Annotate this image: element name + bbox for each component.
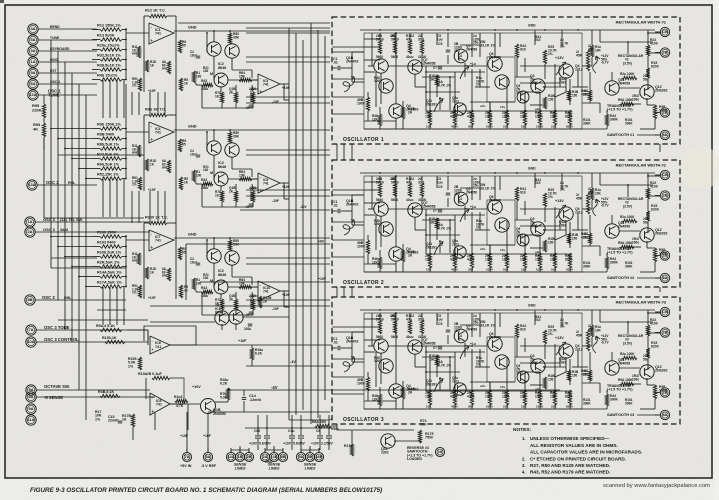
svg-text:(+1.5 TO +1.7V): (+1.5 TO +1.7V) bbox=[607, 251, 633, 255]
svg-text:5600: 5600 bbox=[391, 198, 398, 202]
svg-text:1000: 1000 bbox=[485, 395, 493, 399]
svg-text:43u: 43u bbox=[406, 38, 412, 42]
svg-text:R4b 15u1%: R4b 15u1% bbox=[97, 73, 118, 77]
svg-text:R14A,5uK 1%: R14A,5uK 1% bbox=[97, 270, 122, 274]
svg-text:M: M bbox=[210, 171, 213, 175]
svg-text:+10V: +10V bbox=[311, 442, 320, 446]
svg-text:+10V: +10V bbox=[249, 442, 258, 446]
svg-text:OSC 3: OSC 3 bbox=[43, 227, 56, 232]
svg-text:5600: 5600 bbox=[376, 55, 383, 59]
svg-text:12K: 12K bbox=[372, 260, 379, 264]
svg-text:31.1K: 31.1K bbox=[418, 198, 427, 202]
svg-text:6.2K: 6.2K bbox=[255, 352, 263, 356]
svg-text:1%: 1% bbox=[548, 332, 553, 336]
svg-text:KEYBOARD: KEYBOARD bbox=[50, 47, 70, 51]
svg-text:390K: 390K bbox=[583, 121, 591, 125]
svg-text:1900: 1900 bbox=[357, 382, 365, 386]
svg-text:R12 1K T.C.: R12 1K T.C. bbox=[145, 9, 166, 13]
svg-text:2N1391: 2N1391 bbox=[426, 245, 437, 249]
svg-text:741: 741 bbox=[155, 345, 161, 349]
svg-text:R2u 100K: R2u 100K bbox=[620, 72, 635, 76]
svg-text:1000: 1000 bbox=[486, 125, 493, 129]
svg-text:R8A 150: R8A 150 bbox=[312, 420, 326, 424]
svg-text:OSCILLATOR 2: OSCILLATOR 2 bbox=[343, 280, 384, 286]
svg-text:1K: 1K bbox=[184, 81, 189, 85]
svg-text:390K: 390K bbox=[610, 118, 619, 122]
svg-text:u7u: u7u bbox=[480, 247, 486, 251]
svg-text:13A: 13A bbox=[28, 182, 35, 187]
svg-text:1000: 1000 bbox=[374, 222, 381, 226]
svg-text:1000: 1000 bbox=[374, 359, 381, 363]
svg-text:-4V: -4V bbox=[290, 360, 296, 364]
svg-text:BEND: BEND bbox=[50, 25, 60, 29]
svg-text:390K: 390K bbox=[625, 121, 633, 125]
svg-text:300: 300 bbox=[468, 405, 473, 409]
svg-text:1900: 1900 bbox=[357, 102, 365, 106]
svg-text:8B: 8B bbox=[27, 297, 32, 302]
svg-text:1K: 1K bbox=[184, 180, 189, 184]
svg-text:-5 V REF: -5 V REF bbox=[201, 464, 217, 468]
svg-text:2B: 2B bbox=[662, 110, 667, 115]
svg-text:43K: 43K bbox=[581, 372, 588, 376]
svg-text:8100: 8100 bbox=[565, 115, 573, 119]
svg-text:15K: 15K bbox=[426, 125, 432, 129]
svg-text:1000: 1000 bbox=[502, 115, 510, 119]
svg-text:R2u 100K: R2u 100K bbox=[620, 352, 635, 356]
svg-text:OSCILLATOR 1: OSCILLATOR 1 bbox=[343, 137, 384, 143]
svg-text:1000: 1000 bbox=[502, 395, 510, 399]
svg-text:C*: C* bbox=[433, 209, 437, 213]
svg-text:50u: 50u bbox=[643, 357, 649, 361]
svg-text:R27, R50 AND R129 ARE MATCHED.: R27, R50 AND R129 ARE MATCHED. bbox=[530, 463, 610, 468]
svg-text:+10F: +10F bbox=[180, 434, 188, 438]
svg-text:5A: 5A bbox=[205, 454, 210, 459]
svg-text:ww: ww bbox=[131, 259, 137, 263]
svg-text:2A: 2A bbox=[27, 229, 32, 234]
svg-text:GND: GND bbox=[528, 304, 536, 308]
svg-text:1000: 1000 bbox=[374, 79, 381, 83]
svg-text:5600: 5600 bbox=[391, 55, 398, 59]
svg-text:910: 910 bbox=[520, 48, 526, 52]
svg-text:+10F: +10F bbox=[148, 89, 156, 93]
svg-text:C4u: C4u bbox=[288, 429, 294, 433]
svg-text:1%: 1% bbox=[560, 188, 565, 192]
svg-text:2N1391: 2N1391 bbox=[426, 102, 437, 106]
svg-text:4300: 4300 bbox=[451, 405, 458, 409]
svg-text:10K: 10K bbox=[595, 328, 602, 332]
svg-text:2N4058: 2N4058 bbox=[618, 362, 630, 366]
svg-text:R43: R43 bbox=[201, 286, 207, 290]
svg-text:2K: 2K bbox=[408, 391, 413, 395]
svg-text:6200: 6200 bbox=[651, 65, 659, 69]
svg-text:5600: 5600 bbox=[376, 198, 383, 202]
svg-text:C5: C5 bbox=[438, 322, 442, 326]
svg-text:31.1: 31.1 bbox=[418, 181, 425, 185]
svg-text:OSC 3: OSC 3 bbox=[42, 295, 55, 300]
svg-text:1%: 1% bbox=[128, 364, 134, 368]
svg-text:11A: 11A bbox=[27, 417, 34, 422]
svg-text:1000: 1000 bbox=[486, 405, 493, 409]
svg-text:150K: 150K bbox=[535, 258, 544, 262]
svg-text:1%: 1% bbox=[548, 52, 553, 56]
svg-text:-0.7V: -0.7V bbox=[601, 204, 609, 208]
svg-text:RECTANGULAR WIDTH #3: RECTANGULAR WIDTH #3 bbox=[616, 299, 667, 304]
svg-text:8100: 8100 bbox=[565, 258, 573, 262]
svg-text:+1u: +1u bbox=[470, 342, 476, 346]
svg-text:43uu: 43uu bbox=[406, 55, 413, 59]
svg-text:33.1K 1%: 33.1K 1% bbox=[480, 187, 496, 191]
svg-text:SAWTOOTH #1: SAWTOOTH #1 bbox=[607, 133, 635, 137]
svg-text:1000: 1000 bbox=[485, 115, 493, 119]
svg-text:+13V: +13V bbox=[555, 336, 564, 340]
svg-text:10K: 10K bbox=[595, 191, 602, 195]
svg-text:10uf: 10uf bbox=[190, 152, 197, 156]
svg-text:1000: 1000 bbox=[485, 258, 493, 262]
svg-text:6200: 6200 bbox=[651, 345, 659, 349]
svg-text:LINES: LINES bbox=[235, 467, 246, 471]
svg-text:R9b 1K T.C.: R9b 1K T.C. bbox=[145, 108, 166, 112]
svg-text:10A: 10A bbox=[27, 339, 34, 344]
svg-text:RECTANGULAR: RECTANGULAR bbox=[618, 54, 644, 58]
svg-text:1%: 1% bbox=[560, 325, 565, 329]
svg-text:FIGURE 9-3 OSCILLATOR PRINTED: FIGURE 9-3 OSCILLATOR PRINTED CIRCUIT BO… bbox=[30, 487, 382, 494]
svg-text:ww: ww bbox=[161, 67, 167, 71]
svg-text:1A: 1A bbox=[30, 59, 35, 64]
svg-text:2.2/50V: 2.2/50V bbox=[321, 442, 334, 446]
svg-text:OSCILLATOR 3: OSCILLATOR 3 bbox=[343, 417, 384, 423]
svg-text:15K: 15K bbox=[426, 268, 432, 272]
svg-text:M: M bbox=[210, 72, 213, 76]
svg-text:OSC 3 TONE: OSC 3 TONE bbox=[44, 325, 70, 330]
svg-text:+10V: +10V bbox=[192, 385, 201, 389]
svg-text:1312: 1312 bbox=[575, 348, 583, 352]
svg-text:GND: GND bbox=[188, 26, 197, 30]
svg-text:45K: 45K bbox=[576, 54, 583, 58]
svg-text:R32,5u1K 1%: R32,5u1K 1% bbox=[97, 53, 122, 57]
svg-text:1%: 1% bbox=[132, 291, 137, 295]
svg-text:741: 741 bbox=[155, 239, 161, 243]
svg-text:17u: 17u bbox=[500, 248, 505, 252]
svg-text:22mfd: 22mfd bbox=[108, 419, 118, 423]
svg-text:4300: 4300 bbox=[450, 395, 458, 399]
svg-text:100: 100 bbox=[429, 357, 435, 361]
svg-text:10K: 10K bbox=[550, 258, 557, 262]
svg-text:1.: 1. bbox=[522, 436, 526, 441]
svg-text:2N3392: 2N3392 bbox=[655, 369, 667, 373]
svg-text:2B: 2B bbox=[390, 34, 395, 38]
svg-text:.12mfd: .12mfd bbox=[249, 398, 262, 402]
svg-text:GND: GND bbox=[528, 167, 536, 171]
svg-text:33.1K 1%: 33.1K 1% bbox=[480, 324, 496, 328]
svg-text:1000: 1000 bbox=[502, 258, 510, 262]
svg-text:1912: 1912 bbox=[452, 379, 459, 383]
svg-text:2N3392: 2N3392 bbox=[655, 232, 667, 236]
svg-text:150K: 150K bbox=[536, 405, 544, 409]
svg-text:390K: 390K bbox=[610, 261, 619, 265]
svg-text:C5: C5 bbox=[438, 185, 442, 189]
svg-text:(+1.5 TO +1.7V): (+1.5 TO +1.7V) bbox=[607, 388, 633, 392]
svg-text:6A: 6A bbox=[662, 132, 667, 137]
svg-text:15K: 15K bbox=[425, 258, 432, 262]
svg-text:17u: 17u bbox=[500, 385, 505, 389]
svg-text:9A: 9A bbox=[28, 406, 33, 411]
svg-text:2B: 2B bbox=[662, 330, 667, 335]
svg-text:31.1K: 31.1K bbox=[418, 335, 427, 339]
svg-text:100: 100 bbox=[203, 276, 209, 280]
svg-text:R6b,5uK 1%: R6b,5uK 1% bbox=[97, 162, 120, 166]
svg-text:1K: 1K bbox=[263, 300, 268, 304]
svg-text:150K: 150K bbox=[535, 395, 544, 399]
svg-text:2N3392: 2N3392 bbox=[655, 89, 667, 93]
svg-text:910: 910 bbox=[535, 38, 541, 42]
svg-text:u2u: u2u bbox=[535, 250, 541, 254]
svg-text:R19A/B 0.1uF: R19A/B 0.1uF bbox=[138, 372, 163, 376]
svg-text:390K: 390K bbox=[625, 401, 633, 405]
svg-text:3AM: 3AM bbox=[60, 228, 68, 232]
svg-text:-0.7V: -0.7V bbox=[601, 341, 609, 345]
svg-text:390K: 390K bbox=[610, 398, 619, 402]
svg-text:1312: 1312 bbox=[575, 68, 583, 72]
svg-text:ww: ww bbox=[131, 151, 137, 155]
svg-text:5600: 5600 bbox=[376, 335, 383, 339]
svg-text:55: 55 bbox=[182, 251, 186, 255]
svg-text:3A: 3A bbox=[30, 48, 35, 53]
svg-text:OCTAVE SW.: OCTAVE SW. bbox=[44, 384, 70, 389]
svg-text:R150,1K: R150,1K bbox=[102, 336, 117, 340]
svg-text:43uu: 43uu bbox=[406, 335, 413, 339]
svg-text:25u: 25u bbox=[473, 184, 479, 188]
svg-text:R10b,5uK 1%: R10b,5uK 1% bbox=[97, 250, 122, 254]
svg-text:43u: 43u bbox=[406, 181, 412, 185]
svg-text:1%: 1% bbox=[476, 226, 481, 230]
svg-text:R2u 100K: R2u 100K bbox=[620, 215, 635, 219]
svg-text:(3.5V): (3.5V) bbox=[623, 205, 632, 209]
svg-text:1K: 1K bbox=[122, 418, 127, 422]
svg-text:4A: 4A bbox=[30, 26, 35, 31]
svg-text:5B: 5B bbox=[307, 454, 312, 459]
svg-text:R52,15K 1%: R52,15K 1% bbox=[97, 172, 119, 176]
svg-text:14A: 14A bbox=[227, 454, 234, 459]
svg-text:R43: R43 bbox=[201, 79, 207, 83]
svg-text:+6V: +6V bbox=[318, 240, 325, 244]
svg-text:6200: 6200 bbox=[566, 268, 573, 272]
svg-text:10K: 10K bbox=[551, 125, 557, 129]
svg-text:2K: 2K bbox=[408, 111, 413, 115]
svg-text:1K: 1K bbox=[215, 94, 220, 98]
svg-text:+5V IN: +5V IN bbox=[180, 464, 192, 468]
svg-text:16B: 16B bbox=[315, 454, 322, 459]
svg-text:6200: 6200 bbox=[651, 208, 659, 212]
svg-text:31.1: 31.1 bbox=[418, 38, 425, 42]
svg-text:2K: 2K bbox=[229, 189, 234, 193]
svg-text:2N4058: 2N4058 bbox=[618, 82, 630, 86]
svg-text:1K: 1K bbox=[150, 270, 155, 274]
svg-text:u2u: u2u bbox=[535, 107, 541, 111]
svg-text:5.6/35V: 5.6/35V bbox=[259, 442, 272, 446]
svg-text:50u: 50u bbox=[643, 220, 649, 224]
svg-text:CB: CB bbox=[662, 309, 668, 314]
svg-text:10uf: 10uf bbox=[190, 53, 197, 57]
svg-text:150: 150 bbox=[572, 236, 578, 240]
svg-text:4300: 4300 bbox=[450, 115, 458, 119]
svg-text:4300: 4300 bbox=[467, 115, 475, 119]
svg-text:R43: R43 bbox=[201, 178, 207, 182]
svg-text:8646: 8646 bbox=[218, 273, 226, 277]
svg-text:7A: 7A bbox=[184, 454, 189, 459]
svg-text:R12 150K,1%: R12 150K,1% bbox=[97, 23, 121, 27]
svg-text:4300: 4300 bbox=[451, 268, 458, 272]
svg-text:TUNE: TUNE bbox=[50, 36, 60, 40]
svg-text:10K: 10K bbox=[521, 405, 527, 409]
svg-text:55: 55 bbox=[182, 44, 186, 48]
svg-text:+10F: +10F bbox=[148, 188, 156, 192]
svg-text:8646: 8646 bbox=[218, 165, 226, 169]
svg-text:5A: 5A bbox=[30, 37, 35, 42]
svg-text:R103 5400: R103 5400 bbox=[97, 240, 116, 244]
svg-text:R9b 150K,1%: R9b 150K,1% bbox=[97, 122, 122, 126]
svg-text:10K: 10K bbox=[503, 405, 509, 409]
svg-text:910: 910 bbox=[520, 328, 526, 332]
svg-text:+10V: +10V bbox=[318, 277, 327, 281]
svg-text:100: 100 bbox=[196, 74, 202, 78]
svg-text:2K: 2K bbox=[229, 90, 234, 94]
svg-text:-0.7V: -0.7V bbox=[601, 61, 609, 65]
svg-text:39K: 39K bbox=[233, 36, 240, 40]
svg-text:43K: 43K bbox=[581, 235, 588, 239]
svg-text:R176: R176 bbox=[344, 444, 352, 448]
svg-text:910: 910 bbox=[535, 181, 541, 185]
svg-text:R38,5u1K 1%: R38,5u1K 1% bbox=[97, 63, 122, 67]
svg-text:+10F: +10F bbox=[282, 86, 290, 90]
svg-text:150: 150 bbox=[548, 378, 554, 382]
svg-text:15K: 15K bbox=[425, 115, 432, 119]
svg-text:R13 5u0K: R13 5u0K bbox=[97, 33, 115, 37]
svg-text:C5: C5 bbox=[438, 42, 442, 46]
svg-text:4300: 4300 bbox=[467, 258, 475, 262]
svg-text:ALL RESISTOR VALUES ARE IN OHM: ALL RESISTOR VALUES ARE IN OHMS. bbox=[530, 443, 618, 448]
svg-text:-10F: -10F bbox=[272, 199, 279, 203]
svg-text:u7u: u7u bbox=[480, 384, 486, 388]
svg-text:ww: ww bbox=[161, 274, 167, 278]
svg-text:150K: 150K bbox=[536, 125, 544, 129]
svg-text:7A: 7A bbox=[28, 327, 33, 332]
svg-text:2B: 2B bbox=[662, 253, 667, 258]
svg-text:741: 741 bbox=[155, 32, 161, 36]
svg-text:GND: GND bbox=[188, 125, 197, 129]
svg-text:1A: 1A bbox=[27, 219, 32, 224]
svg-text:+10F: +10F bbox=[203, 434, 211, 438]
svg-text:12K: 12K bbox=[372, 117, 379, 121]
svg-text:5A: 5A bbox=[298, 454, 303, 459]
svg-text:4300: 4300 bbox=[450, 258, 458, 262]
svg-text:u7u: u7u bbox=[480, 104, 486, 108]
svg-text:910: 910 bbox=[520, 191, 526, 195]
svg-text:1K: 1K bbox=[215, 193, 220, 197]
svg-text:39K: 39K bbox=[233, 135, 240, 139]
svg-text:8100: 8100 bbox=[565, 395, 573, 399]
svg-text:741: 741 bbox=[263, 83, 269, 87]
svg-text:6B: 6B bbox=[280, 454, 285, 459]
svg-text:15K: 15K bbox=[239, 75, 246, 79]
svg-text:10K: 10K bbox=[521, 125, 527, 129]
svg-text:1%: 1% bbox=[476, 363, 481, 367]
svg-text:RECTANGULAR WIDTH #2: RECTANGULAR WIDTH #2 bbox=[616, 162, 667, 167]
svg-text:-5 SENSE: -5 SENSE bbox=[44, 395, 63, 400]
svg-text:100: 100 bbox=[203, 69, 209, 73]
svg-text:(2A) TEL SW.: (2A) TEL SW. bbox=[60, 218, 83, 222]
svg-text:55: 55 bbox=[182, 143, 186, 147]
svg-text:2B: 2B bbox=[390, 314, 395, 318]
svg-text:50u: 50u bbox=[643, 77, 649, 81]
svg-text:6.2K: 6.2K bbox=[220, 382, 228, 386]
svg-text:1B: 1B bbox=[237, 454, 242, 459]
svg-text:-10F: -10F bbox=[272, 307, 279, 311]
svg-text:C* ETCHED ON PRINTED CIRCUIT B: C* ETCHED ON PRINTED CIRCUIT BOARD. bbox=[530, 457, 626, 462]
svg-text:CB: CB bbox=[662, 29, 668, 34]
svg-text:1912: 1912 bbox=[452, 242, 459, 246]
svg-text:9A: 9A bbox=[30, 70, 35, 75]
svg-text:150: 150 bbox=[548, 241, 554, 245]
svg-text:2N4058: 2N4058 bbox=[466, 327, 477, 331]
svg-text:10K: 10K bbox=[503, 125, 509, 129]
svg-text:+13V: +13V bbox=[555, 199, 564, 203]
svg-text:3.: 3. bbox=[522, 463, 526, 468]
svg-text:100: 100 bbox=[196, 173, 202, 177]
svg-text:1%: 1% bbox=[95, 417, 101, 421]
svg-text:5.9K: 5.9K bbox=[220, 396, 228, 400]
svg-text:R43, R52 AND R179 ARE MATCHED.: R43, R52 AND R179 ARE MATCHED. bbox=[530, 470, 610, 475]
svg-text:ww: ww bbox=[161, 166, 167, 170]
svg-text:150: 150 bbox=[548, 98, 554, 102]
svg-text:R9u,4 5.1K: R9u,4 5.1K bbox=[96, 324, 115, 328]
svg-text:LINES: LINES bbox=[305, 467, 316, 471]
svg-text:R3B,5.1K: R3B,5.1K bbox=[98, 390, 115, 394]
svg-text:R2R,5uK 1%: R2R,5uK 1% bbox=[97, 260, 120, 264]
svg-text:1K: 1K bbox=[150, 162, 155, 166]
svg-text:6A: 6A bbox=[28, 394, 33, 399]
svg-text:10K: 10K bbox=[550, 115, 557, 119]
svg-text:6A: 6A bbox=[662, 275, 667, 280]
svg-text:100: 100 bbox=[429, 77, 435, 81]
svg-text:+1u: +1u bbox=[470, 205, 476, 209]
svg-text:10K: 10K bbox=[551, 268, 557, 272]
svg-text:6200: 6200 bbox=[566, 405, 573, 409]
svg-text:15K: 15K bbox=[426, 405, 432, 409]
svg-text:1912: 1912 bbox=[452, 99, 459, 103]
svg-text:2.: 2. bbox=[522, 457, 526, 462]
svg-text:+1u: +1u bbox=[470, 62, 476, 66]
svg-text:(+1.5 TO +1.7V): (+1.5 TO +1.7V) bbox=[607, 108, 633, 112]
svg-text:8646: 8646 bbox=[218, 66, 226, 70]
svg-text:15K: 15K bbox=[425, 395, 432, 399]
svg-text:RECTANGULAR: RECTANGULAR bbox=[618, 334, 644, 338]
svg-text:43K: 43K bbox=[581, 92, 588, 96]
svg-text:43u: 43u bbox=[406, 318, 412, 322]
svg-text:7500: 7500 bbox=[425, 436, 433, 440]
svg-text:100: 100 bbox=[203, 168, 209, 172]
svg-text:6A: 6A bbox=[30, 81, 35, 86]
svg-text:LINES: LINES bbox=[269, 467, 280, 471]
svg-text:2N1391: 2N1391 bbox=[426, 382, 437, 386]
svg-text:12K: 12K bbox=[372, 397, 379, 401]
svg-text:RECTANGULAR WIDTH #1: RECTANGULAR WIDTH #1 bbox=[616, 19, 667, 24]
svg-text:10K: 10K bbox=[551, 405, 557, 409]
svg-text:CB: CB bbox=[662, 172, 668, 177]
svg-text:-4V: -4V bbox=[271, 385, 278, 390]
svg-text:31.1: 31.1 bbox=[418, 318, 425, 322]
svg-text:SAWTOOTH #2: SAWTOOTH #2 bbox=[607, 276, 634, 280]
svg-text:SAWTOOTH #3: SAWTOOTH #3 bbox=[607, 413, 634, 417]
